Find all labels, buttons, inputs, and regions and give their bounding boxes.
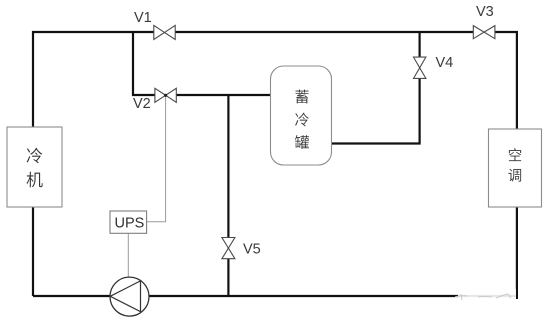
- label text 罐 (tank): [295, 135, 309, 149]
- watermark fade over bottom pipe: [458, 289, 516, 303]
- wire: V5 branch upper segment: [227, 95, 229, 238]
- UPS box: [110, 211, 147, 233]
- wire: top pipe right segment (V3 to right riser down to AC box): [495, 32, 517, 129]
- wire: thin control line from UPS to pump: [127, 233, 129, 277]
- wire: V2 branch riser from top pipe: [133, 31, 155, 95]
- watermark faint streaks: [455, 294, 511, 300]
- wire: V5 branch lower segment: [227, 259, 229, 296]
- label text 调 (AC box): [508, 169, 521, 182]
- label text 蓄 (tank): [295, 90, 308, 104]
- label text 冷 (tank): [295, 113, 309, 127]
- svg-text:V3: V3: [476, 4, 494, 20]
- wire: tank outlet to V4 riser: [332, 78, 420, 143]
- label text 冷 (chiller box): [27, 148, 43, 164]
- valve V1: [154, 25, 175, 39]
- wire: V2 to tank left side: [176, 94, 270, 96]
- svg-text:V4: V4: [436, 55, 454, 71]
- svg-text:V2: V2: [133, 96, 151, 112]
- valve V3: [473, 26, 495, 39]
- svg-text:V5: V5: [243, 242, 261, 258]
- wire: top pipe middle segment (V1 to V3): [175, 31, 473, 33]
- storage tank 蓄冷罐 (rounded): [271, 66, 332, 165]
- wire: V4 riser upper segment to top pipe: [419, 32, 421, 57]
- AC box 空调: [489, 129, 542, 207]
- wire: bottom pipe from left riser to pump: [33, 295, 110, 297]
- wire: thin control line from valve V2 to UPS: [147, 96, 166, 222]
- valve V4 (vertical): [414, 57, 426, 78]
- wire: right riser below AC box: [516, 207, 518, 299]
- svg-text:V1: V1: [134, 10, 152, 26]
- junction dot at valve V2 center: [164, 94, 167, 97]
- wire: bottom pipe from pump to right riser: [149, 295, 518, 297]
- chiller box 冷机: [7, 127, 62, 207]
- wire: top pipe left segment (left riser to V1): [33, 32, 154, 296]
- label text 空 (AC box): [509, 148, 521, 161]
- svg-text:UPS: UPS: [115, 215, 145, 231]
- pump P1 (circle with left-pointing triangle): [110, 277, 149, 316]
- valve V5 (vertical): [222, 238, 235, 259]
- valve V2: [155, 88, 176, 102]
- label text 机 (chiller box): [26, 172, 42, 188]
